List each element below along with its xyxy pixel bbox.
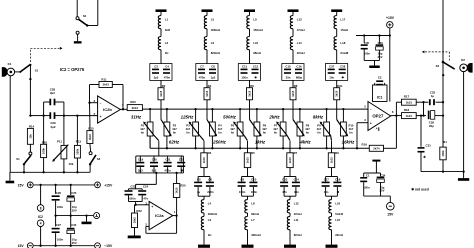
svg-text:+: + bbox=[100, 115, 102, 119]
resistor R14 bbox=[27, 125, 34, 145]
svg-text:R15: R15 bbox=[88, 127, 94, 131]
svg-text:+: + bbox=[151, 205, 153, 209]
svg-text:15mH: 15mH bbox=[340, 28, 348, 32]
svg-text:1µ: 1µ bbox=[431, 94, 435, 98]
ground OP27 supply bbox=[372, 160, 380, 173]
ground left bbox=[6, 172, 15, 183]
svg-text:1H: 1H bbox=[208, 233, 212, 237]
svg-text:−: − bbox=[370, 107, 372, 111]
svg-text:1k15: 1k15 bbox=[175, 187, 179, 193]
terminal -15V right bbox=[387, 202, 395, 216]
svg-text:470n: 470n bbox=[199, 76, 206, 80]
potentiometer P2 bbox=[161, 108, 177, 150]
svg-text:IC2: IC2 bbox=[38, 215, 43, 219]
wire +15V to OP27 pin7 bbox=[389, 36, 391, 102]
capacitor C14 bbox=[284, 177, 300, 197]
ground top chain 1 bbox=[156, 9, 167, 15]
terminal 15V left A bbox=[18, 182, 34, 188]
svg-text:−: − bbox=[100, 102, 102, 106]
capacitor C2 bbox=[375, 76, 385, 86]
svg-text:8kHz: 8kHz bbox=[313, 115, 324, 120]
capacitor C29b bbox=[428, 111, 444, 128]
wire S3b top feed bbox=[442, 0, 444, 62]
potentiometer P5 bbox=[230, 108, 247, 150]
svg-text:C5: C5 bbox=[197, 178, 201, 182]
wire OP27 pin4 stub bbox=[376, 127, 379, 132]
resistor R13 bbox=[74, 116, 81, 173]
svg-text:lin: lin bbox=[173, 131, 177, 135]
svg-text:466mH: 466mH bbox=[211, 28, 220, 32]
wire wiper to R9 bbox=[331, 141, 333, 153]
svg-text:C23: C23 bbox=[130, 185, 136, 189]
resistor R22 bbox=[132, 205, 143, 236]
ground bottom chain 3 bbox=[284, 245, 296, 248]
svg-text:C3: C3 bbox=[154, 64, 158, 68]
wire left ground line bbox=[10, 171, 90, 173]
svg-text:100n: 100n bbox=[57, 205, 64, 209]
svg-text:R20: R20 bbox=[180, 183, 186, 187]
ground top chain 4 bbox=[288, 9, 299, 15]
svg-text:10n: 10n bbox=[324, 190, 329, 194]
svg-text:R19: R19 bbox=[362, 142, 368, 146]
wire S2 right from top edge bbox=[87, 0, 98, 26]
inductor L13 bbox=[290, 16, 304, 32]
wire R4 to wiper bbox=[206, 100, 208, 120]
wire R6 to wiper bbox=[249, 100, 251, 120]
inductor L6 bbox=[204, 29, 220, 64]
contact S2 lower pole bbox=[74, 31, 82, 43]
svg-text:1µ2: 1µ2 bbox=[211, 76, 216, 80]
inductor L3 bbox=[201, 213, 211, 245]
resistor R9 bbox=[328, 151, 339, 168]
svg-text:L14: L14 bbox=[297, 41, 302, 45]
wire IC2a feedback bbox=[146, 216, 177, 234]
svg-text:L2: L2 bbox=[165, 41, 169, 45]
svg-text:OP27: OP27 bbox=[372, 114, 384, 119]
capacitor C5 bbox=[194, 168, 210, 197]
inductor L14 bbox=[290, 29, 304, 64]
capacitor C34 bbox=[377, 173, 386, 196]
capacitor C17 bbox=[322, 168, 338, 197]
inductor L15 bbox=[329, 213, 343, 245]
svg-text:S3: S3 bbox=[436, 64, 440, 68]
wire right ground line bbox=[421, 170, 465, 172]
svg-text:L15: L15 bbox=[335, 218, 340, 222]
capacitor C37 bbox=[326, 64, 348, 81]
potentiometer P9 bbox=[317, 108, 332, 150]
svg-text:C22: C22 bbox=[179, 157, 185, 161]
svg-text:C7: C7 bbox=[200, 64, 204, 68]
potentiometer P8 bbox=[293, 108, 310, 150]
svg-text:250Hz: 250Hz bbox=[212, 140, 226, 145]
capacitor C10 bbox=[242, 177, 258, 197]
svg-text:S2: S2 bbox=[83, 14, 87, 18]
svg-text:4: 4 bbox=[40, 222, 42, 226]
svg-text:2kHz: 2kHz bbox=[268, 115, 280, 120]
capacitor C33 bbox=[429, 91, 444, 106]
svg-text:10n: 10n bbox=[329, 76, 334, 80]
svg-text:+15V: +15V bbox=[386, 16, 395, 20]
terminal ground B bbox=[94, 213, 100, 219]
connector K2 bbox=[460, 58, 473, 172]
svg-text:−15V: −15V bbox=[104, 244, 113, 248]
wire S1 down to C28 rail bbox=[29, 64, 31, 115]
svg-text:C37: C37 bbox=[329, 64, 335, 68]
svg-text:C14: C14 bbox=[294, 178, 300, 182]
ground bottom chain 4 bbox=[326, 245, 338, 248]
svg-text:P11: P11 bbox=[57, 140, 62, 144]
svg-text:C11: C11 bbox=[242, 64, 247, 68]
resistor R3 bbox=[201, 151, 212, 168]
capacitor C20 bbox=[150, 156, 158, 173]
switch S1 input bbox=[20, 64, 38, 73]
svg-text:lin: lin bbox=[317, 131, 321, 135]
svg-text:C24: C24 bbox=[143, 185, 149, 189]
wire K1 to S1 bbox=[15, 71, 22, 73]
resistor R15 bbox=[87, 123, 94, 143]
resistor R5 bbox=[244, 151, 255, 168]
svg-text:15V: 15V bbox=[18, 183, 25, 187]
svg-text:✱ not used: ✱ not used bbox=[411, 187, 428, 191]
capacitor C26 bbox=[52, 185, 64, 216]
svg-text:22mH: 22mH bbox=[335, 233, 343, 237]
resistor R11 feedback bbox=[90, 77, 125, 110]
wire rail to C23 bbox=[136, 173, 157, 189]
svg-text:2k43: 2k43 bbox=[132, 106, 139, 110]
svg-text:4kHz: 4kHz bbox=[299, 140, 311, 145]
potentiometer P10 bbox=[337, 108, 354, 150]
capacitor C9 bbox=[238, 168, 254, 197]
switch S1b bbox=[16, 144, 32, 172]
wire IC2b output bbox=[120, 108, 127, 110]
svg-text:1k15: 1k15 bbox=[202, 157, 206, 163]
svg-text:IC2 = OP275: IC2 = OP275 bbox=[60, 67, 85, 72]
svg-text:lin: lin bbox=[218, 131, 222, 135]
svg-text:1k21: 1k21 bbox=[406, 114, 413, 118]
wire output node up to S3b bbox=[442, 62, 444, 102]
op-amp IC2b bbox=[94, 96, 124, 123]
inductor L9 bbox=[247, 16, 263, 32]
svg-text:150n: 150n bbox=[241, 76, 248, 80]
svg-text:100k: 100k bbox=[441, 150, 445, 156]
svg-text:82mH: 82mH bbox=[294, 233, 302, 237]
svg-text:1k15: 1k15 bbox=[288, 157, 292, 163]
svg-text:25V: 25V bbox=[72, 241, 77, 245]
pin IC2 supply 8 bbox=[37, 185, 44, 211]
ground top chain 5 bbox=[331, 9, 342, 15]
svg-text:100k: 100k bbox=[42, 147, 46, 153]
potentiometer P6 bbox=[250, 108, 268, 150]
capacitor C1 bbox=[360, 173, 370, 196]
resistor R1 bbox=[440, 102, 447, 173]
svg-text:C8: C8 bbox=[211, 64, 215, 68]
svg-text:L9: L9 bbox=[253, 17, 257, 21]
op-amp OP27 bbox=[364, 97, 394, 130]
svg-text:25V: 25V bbox=[72, 208, 77, 212]
svg-text:22mH: 22mH bbox=[294, 212, 302, 216]
svg-text:C9: C9 bbox=[241, 178, 245, 182]
svg-text:150mH: 150mH bbox=[253, 28, 262, 32]
gang link S1-S2 dashed bbox=[30, 47, 62, 62]
capacitor C15 bbox=[282, 64, 304, 81]
potentiometer P3 bbox=[186, 108, 204, 150]
inductor L12 bbox=[287, 196, 301, 216]
resistor R4 bbox=[204, 80, 212, 99]
terminal +15V right A bbox=[95, 182, 113, 188]
capacitor C30 bbox=[67, 216, 77, 246]
svg-text:lin: lin bbox=[141, 131, 145, 135]
terminal -15V right C bbox=[95, 243, 113, 248]
inductor L4 bbox=[201, 196, 217, 216]
svg-text:L7: L7 bbox=[251, 218, 255, 222]
capacitor C18 bbox=[326, 177, 342, 197]
svg-text:1k15: 1k15 bbox=[247, 90, 251, 96]
svg-text:L12: L12 bbox=[294, 201, 299, 205]
capacitor C23 bbox=[125, 185, 143, 202]
inductor L7 bbox=[245, 213, 261, 245]
resistor R23 bbox=[127, 100, 142, 110]
inductor L5 bbox=[204, 16, 220, 32]
svg-text:15V: 15V bbox=[18, 244, 25, 248]
svg-text:1µ: 1µ bbox=[197, 190, 201, 194]
wire wiper to R5 bbox=[247, 141, 249, 153]
svg-text:25V: 25V bbox=[378, 55, 383, 59]
wire pin3 bbox=[136, 204, 150, 206]
potentiometer P4 bbox=[207, 108, 223, 150]
svg-text:IC2b: IC2b bbox=[103, 107, 112, 112]
svg-text:1k21: 1k21 bbox=[406, 100, 413, 104]
ground top chain 2 bbox=[202, 9, 213, 15]
svg-text:620n: 620n bbox=[129, 196, 136, 200]
svg-text:82mH: 82mH bbox=[251, 212, 259, 216]
resistor R2 bbox=[158, 80, 166, 99]
ground +15V caps bbox=[364, 61, 380, 69]
svg-text:L10: L10 bbox=[253, 41, 258, 45]
wire C23 to pin3 bbox=[134, 202, 136, 206]
svg-text:33n: 33n bbox=[294, 190, 299, 194]
svg-text:47mH: 47mH bbox=[297, 28, 305, 32]
pin IC2 supply 4 bbox=[37, 220, 44, 246]
switch S2 bbox=[76, 14, 88, 26]
svg-text:R7: R7 bbox=[294, 151, 298, 155]
op-amp IC2a bbox=[145, 201, 175, 230]
svg-text:330mH: 330mH bbox=[208, 212, 217, 216]
potentiometer P7 bbox=[273, 108, 290, 150]
potentiometer P1 bbox=[140, 108, 159, 148]
terminal +15V top bbox=[386, 16, 395, 36]
svg-text:1H: 1H bbox=[165, 51, 169, 55]
svg-text:lin: lin bbox=[186, 131, 190, 135]
capacitor C38 bbox=[339, 64, 346, 79]
svg-text:L11: L11 bbox=[294, 218, 299, 222]
svg-text:L8: L8 bbox=[251, 201, 255, 205]
capacitor C27 bbox=[52, 216, 64, 246]
svg-text:47n: 47n bbox=[282, 190, 287, 194]
svg-text:L18: L18 bbox=[340, 41, 345, 45]
inductor L10 bbox=[247, 29, 261, 64]
svg-text:22mH: 22mH bbox=[297, 51, 305, 55]
capacitor C24 bbox=[129, 185, 149, 202]
capacitor C22 bbox=[177, 156, 185, 173]
svg-text:C18: C18 bbox=[335, 178, 341, 182]
svg-text:C4: C4 bbox=[165, 64, 169, 68]
wire input rail bbox=[29, 114, 43, 116]
svg-text:R9: R9 bbox=[335, 151, 339, 155]
svg-text:C15: C15 bbox=[285, 64, 291, 68]
switch S3b bbox=[436, 61, 455, 69]
svg-text:L3: L3 bbox=[208, 218, 212, 222]
svg-text:15k: 15k bbox=[28, 134, 32, 139]
capacitor C28 bbox=[44, 88, 64, 116]
capacitor C21 bbox=[164, 156, 172, 173]
resistor R21 bbox=[334, 80, 343, 99]
svg-text:62Hz: 62Hz bbox=[169, 140, 180, 145]
svg-text:S1: S1 bbox=[35, 68, 39, 72]
svg-text:K1: K1 bbox=[8, 62, 12, 66]
wire mid rail B bbox=[54, 214, 93, 216]
svg-text:16k2: 16k2 bbox=[132, 217, 136, 223]
svg-text:500Hz: 500Hz bbox=[223, 115, 236, 120]
svg-text:2µ2: 2µ2 bbox=[51, 125, 56, 129]
svg-text:1k15: 1k15 bbox=[245, 157, 249, 163]
svg-text:100n: 100n bbox=[239, 190, 246, 194]
svg-text:1H8: 1H8 bbox=[165, 28, 171, 32]
svg-text:100k: 100k bbox=[75, 148, 79, 154]
capacitor C31 bbox=[418, 114, 432, 171]
svg-text:100n: 100n bbox=[363, 185, 370, 189]
svg-text:S3: S3 bbox=[97, 157, 101, 161]
wire -15V rail C bbox=[34, 245, 94, 247]
svg-text:1k15: 1k15 bbox=[335, 90, 339, 96]
svg-text:C6: C6 bbox=[208, 178, 212, 182]
svg-text:68mH: 68mH bbox=[253, 51, 261, 55]
svg-text:2k74: 2k74 bbox=[373, 147, 380, 151]
resistor R19 bbox=[362, 116, 397, 152]
ground bottom chain 2 bbox=[242, 245, 254, 248]
svg-text:1kHz: 1kHz bbox=[255, 140, 266, 145]
svg-text:2k43: 2k43 bbox=[88, 134, 92, 140]
wire +15V rail A bbox=[34, 184, 94, 186]
svg-text:lin: lin bbox=[274, 131, 278, 135]
wire OP27 output bbox=[391, 114, 402, 116]
svg-text:L17: L17 bbox=[340, 17, 345, 21]
resistor R20 bbox=[173, 173, 186, 216]
capacitor C13 bbox=[280, 168, 296, 197]
svg-text:1k15: 1k15 bbox=[205, 90, 209, 96]
inductor L16 bbox=[329, 196, 344, 216]
svg-text:33n: 33n bbox=[286, 76, 291, 80]
ground bottom chain 1 bbox=[198, 245, 210, 248]
svg-text:C13: C13 bbox=[282, 178, 288, 182]
wire IC2a output bbox=[173, 214, 178, 216]
svg-text:820mH: 820mH bbox=[211, 51, 220, 55]
svg-text:16kHz: 16kHz bbox=[342, 140, 355, 145]
inductor L1 bbox=[158, 16, 170, 32]
wire R17 R18 join bbox=[416, 101, 428, 117]
svg-text:C12: C12 bbox=[253, 64, 259, 68]
svg-text:125Hz: 125Hz bbox=[181, 115, 194, 120]
svg-text:R13: R13 bbox=[76, 140, 82, 144]
svg-text:C16: C16 bbox=[296, 64, 302, 68]
wire feedback up bbox=[396, 102, 401, 115]
svg-text:lin: lin bbox=[349, 131, 353, 135]
wire stub to C19 group bbox=[158, 141, 160, 156]
inductor L18 bbox=[334, 29, 349, 64]
svg-text:100n: 100n bbox=[57, 238, 64, 242]
svg-text:100n: 100n bbox=[251, 190, 258, 194]
capacitor C12 bbox=[252, 64, 259, 79]
svg-text:C38: C38 bbox=[340, 64, 346, 68]
svg-text:C31: C31 bbox=[426, 144, 432, 148]
svg-text:R23: R23 bbox=[130, 100, 136, 104]
svg-text:IC1: IC1 bbox=[377, 96, 383, 100]
wire S2 left from top edge bbox=[76, 0, 78, 17]
svg-text:+15V: +15V bbox=[104, 183, 113, 187]
terminal 15V left C bbox=[18, 243, 34, 248]
inductor L2 bbox=[158, 29, 168, 64]
svg-text:R1: R1 bbox=[443, 140, 447, 144]
wire -15V rail bottom right bbox=[364, 196, 391, 203]
svg-text:1k15: 1k15 bbox=[329, 157, 333, 163]
wire C19 group bottom rail bbox=[136, 172, 184, 174]
capacitor C29 bbox=[44, 102, 64, 129]
svg-text:C30: C30 bbox=[71, 223, 77, 227]
connector K1 bbox=[2, 62, 15, 77]
svg-text:L4: L4 bbox=[208, 201, 212, 205]
svg-text:L5: L5 bbox=[211, 17, 215, 21]
svg-text:+: + bbox=[370, 121, 372, 125]
capacitor C19 bbox=[136, 156, 184, 173]
wire bottom bus bbox=[150, 147, 369, 149]
svg-text:lin: lin bbox=[231, 131, 235, 135]
svg-text:1k15: 1k15 bbox=[159, 90, 163, 96]
svg-text:C10: C10 bbox=[251, 178, 257, 182]
svg-text:C1: C1 bbox=[366, 173, 370, 177]
gang link S3 dashed bbox=[422, 50, 450, 60]
capacitor C7 bbox=[196, 64, 218, 81]
svg-text:470n: 470n bbox=[164, 76, 171, 80]
capacitor C11 bbox=[238, 64, 260, 81]
svg-text:R5: R5 bbox=[251, 151, 255, 155]
svg-text:330mH: 330mH bbox=[251, 233, 260, 237]
resistor R7 bbox=[287, 151, 298, 168]
svg-text:5mH6: 5mH6 bbox=[335, 212, 343, 216]
svg-text:S1: S1 bbox=[16, 157, 20, 161]
svg-text:R3: R3 bbox=[208, 151, 212, 155]
resistor R17 bbox=[402, 95, 417, 106]
svg-text:lin: lin bbox=[306, 131, 310, 135]
svg-text:C20: C20 bbox=[152, 157, 158, 161]
svg-text:L16: L16 bbox=[335, 201, 340, 205]
ground mid rail bbox=[82, 216, 92, 225]
wire K1 ground drop bbox=[9, 76, 11, 173]
svg-text:31Hz: 31Hz bbox=[131, 115, 142, 120]
ground right bbox=[458, 172, 469, 181]
ground R22 bbox=[128, 236, 141, 239]
wire rail to IC2b pin5 bbox=[42, 114, 97, 116]
svg-text:15V: 15V bbox=[387, 213, 394, 217]
svg-text:C27: C27 bbox=[56, 223, 62, 227]
svg-text:220n: 220n bbox=[207, 190, 214, 194]
svg-text:2k43: 2k43 bbox=[103, 83, 110, 87]
resistor R8 bbox=[290, 80, 298, 99]
capacitor C25 bbox=[67, 185, 77, 216]
svg-text:R11: R11 bbox=[101, 77, 107, 81]
capacitor C6 bbox=[198, 177, 214, 197]
svg-text:2µ2: 2µ2 bbox=[50, 91, 55, 95]
svg-text:22µ: 22µ bbox=[429, 124, 434, 128]
box IC1 bbox=[373, 85, 388, 102]
